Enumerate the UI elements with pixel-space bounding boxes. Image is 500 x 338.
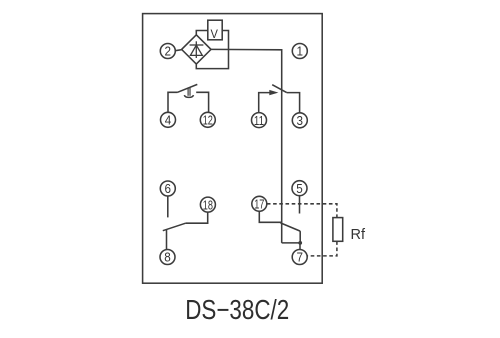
- terminal 7: [292, 250, 307, 265]
- wire: rectifier right vertex to long vertical bus: [211, 49, 282, 243]
- stub wire below terminal 5: [299, 196, 301, 214]
- wire: terminal 2 to rectifier left vertex: [175, 50, 182, 51]
- resistor Rf: [333, 218, 343, 242]
- terminal 12: [200, 112, 215, 127]
- svg-text:Rf: Rf: [351, 227, 366, 243]
- svg-text:2: 2: [165, 44, 172, 59]
- contact K4 blade: [281, 223, 301, 231]
- bridge rectifier diamond: [182, 35, 211, 64]
- contact K3 blade: [163, 223, 186, 231]
- contact K1 slow-release arc: [184, 95, 193, 97]
- wire: junction down to terminal 7: [299, 243, 301, 250]
- contact K3: wire from terminal 6 down: [167, 196, 169, 217]
- terminal 18: [200, 197, 215, 212]
- terminal 3: [292, 113, 307, 128]
- svg-text:4: 4: [165, 113, 172, 128]
- terminal 17: [252, 196, 267, 211]
- diode inside rectifier: [190, 41, 204, 58]
- dashed wire: terminal 17 to resistor Rf: [267, 204, 337, 218]
- relay case outline: [143, 14, 323, 284]
- svg-text:11: 11: [254, 113, 264, 128]
- wire: bus bottom corner to junction: [282, 242, 301, 244]
- contact K2 blade: [272, 85, 287, 93]
- contact K3: pivot wire to terminal 8: [166, 230, 168, 250]
- svg-text:7: 7: [296, 250, 303, 265]
- terminal 6: [160, 181, 175, 196]
- terminal 5: [292, 181, 307, 196]
- terminal 11: [252, 113, 267, 128]
- dashed wire: resistor Rf to terminal 7: [307, 241, 337, 256]
- terminal 4: [161, 112, 176, 127]
- wire: voltmeter right side down and around to rectifier bottom vertex: [196, 31, 228, 69]
- contact K2 arrowhead: [269, 90, 278, 95]
- svg-text:6: 6: [165, 181, 172, 196]
- contact K3: fixed contact to terminal 18: [186, 212, 208, 223]
- terminal 8: [160, 250, 175, 265]
- voltmeter box V: [208, 20, 222, 40]
- contact K1 slow-release symbol (double bar): [188, 87, 190, 95]
- svg-text:12: 12: [203, 113, 213, 128]
- svg-text:18: 18: [203, 197, 213, 212]
- contact K4: wire from terminal 17 to bus: [259, 211, 281, 222]
- contact K1 blade: [178, 84, 198, 92]
- contact K1: right fixed contact to terminal 12: [196, 92, 208, 112]
- terminal 1: [292, 44, 307, 59]
- contact K2: wire from terminal 11 with arrow: [259, 93, 272, 113]
- terminal 2: [160, 44, 175, 59]
- contact K4: blade end down to junction: [299, 231, 301, 243]
- junction dot at terminal 7 branch: [298, 241, 302, 245]
- svg-text:3: 3: [297, 113, 304, 128]
- svg-text:V: V: [211, 27, 218, 41]
- contact K1: wire from terminal 4 up and right: [168, 92, 178, 112]
- svg-text:1: 1: [297, 44, 304, 59]
- svg-text:8: 8: [164, 250, 171, 265]
- svg-text:5: 5: [296, 181, 303, 196]
- svg-text:DS−38C/2: DS−38C/2: [185, 294, 289, 325]
- wire: rectifier top vertex to voltmeter box: [196, 31, 208, 35]
- svg-text:17: 17: [254, 197, 264, 212]
- contact K2: right fixed contact to terminal 3: [287, 93, 300, 113]
